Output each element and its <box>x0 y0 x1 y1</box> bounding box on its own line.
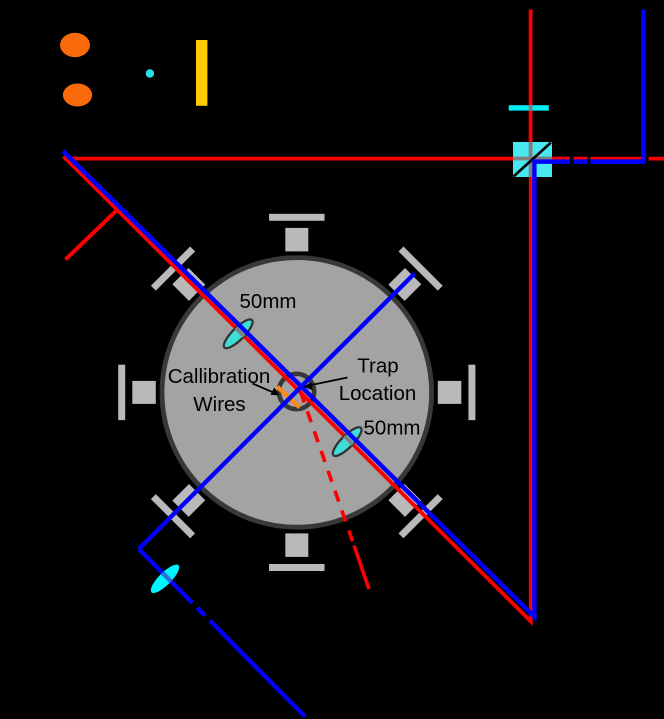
svg-text:Wires: Wires <box>193 393 245 416</box>
svg-text:Location: Location <box>339 382 417 405</box>
svg-text:50mm: 50mm <box>240 290 297 313</box>
svg-text:Trap: Trap <box>357 355 398 378</box>
svg-text:50mm: 50mm <box>364 417 421 440</box>
